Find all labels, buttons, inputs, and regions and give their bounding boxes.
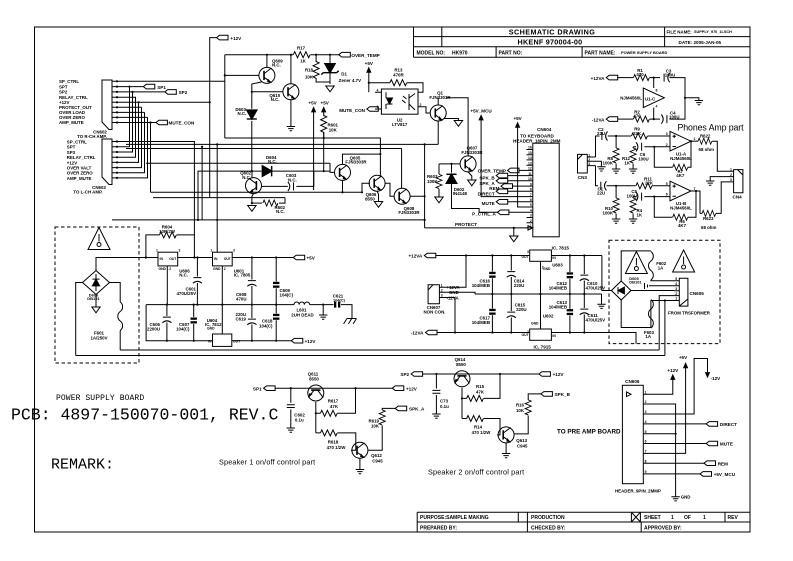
- flag REM: [501, 184, 527, 189]
- resistor R8: [613, 136, 619, 169]
- svg-text:470U: 470U: [236, 297, 247, 302]
- ground under R603: [435, 197, 443, 203]
- svg-text:3: 3: [441, 294, 443, 298]
- svg-text:POWER SUPPLY BOARD: POWER SUPPLY BOARD: [56, 394, 144, 403]
- regulator U601: [213, 252, 233, 304]
- ground R8: [612, 169, 620, 173]
- svg-text:2: 2: [666, 143, 668, 147]
- svg-text:4: 4: [656, 105, 658, 109]
- svg-text:4: 4: [377, 88, 379, 92]
- transistor Q612: [352, 442, 368, 458]
- svg-text:CN604: CN604: [537, 127, 552, 132]
- svg-text:SPK_A: SPK_A: [409, 407, 425, 412]
- svg-text:GND: GND: [531, 322, 539, 326]
- svg-text:3: 3: [675, 287, 677, 291]
- svg-text:GND: GND: [158, 267, 166, 271]
- wire R17 rail: [225, 54, 339, 56]
- svg-text:DIRECT: DIRECT: [720, 422, 737, 427]
- connector CN4: [729, 170, 743, 193]
- capacitor C814: [507, 256, 516, 295]
- svg-text:TO PRE AMP BOARD: TO PRE AMP BOARD: [557, 428, 621, 435]
- svg-text:R14: R14: [474, 425, 483, 430]
- svg-text:470 1/2W: 470 1/2W: [327, 445, 347, 450]
- CN603 net label stack: [67, 139, 96, 180]
- svg-text:+5V: +5V: [308, 100, 317, 105]
- flag +5V_MCU (CN606): [649, 472, 712, 477]
- svg-text:104(C): 104(C): [333, 297, 346, 302]
- svg-text:+12VA: +12VA: [408, 254, 423, 259]
- svg-text:1K: 1K: [624, 160, 630, 165]
- ground under D606: [92, 295, 100, 313]
- resistor R617: [320, 410, 337, 416]
- transistor Q607: [460, 156, 476, 172]
- svg-text:47K: 47K: [330, 404, 339, 409]
- svg-text:2200U: 2200U: [147, 327, 160, 332]
- +5V rail: [178, 257, 294, 259]
- svg-text:N.C.: N.C.: [272, 63, 281, 68]
- svg-text:100K: 100K: [427, 179, 438, 184]
- svg-text:100U: 100U: [665, 73, 676, 78]
- svg-text:SPT: SPT: [59, 84, 68, 89]
- transistor Q610: [283, 84, 299, 100]
- bridge D605: [611, 281, 631, 300]
- svg-text:OUT: OUT: [169, 257, 177, 261]
- svg-text:OF: OF: [684, 515, 691, 521]
- svg-text:3: 3: [179, 248, 181, 252]
- svg-text:U602: U602: [543, 314, 554, 319]
- capacitor C619: [247, 305, 256, 341]
- svg-text:MUTE_CON: MUTE_CON: [339, 108, 365, 113]
- warning triangle (left): [88, 228, 110, 250]
- bottom title block: [417, 512, 750, 532]
- connector CN605: [674, 278, 688, 306]
- GND wire (CN606): [649, 404, 676, 497]
- svg-text:TO L-CH AMP.: TO L-CH AMP.: [73, 189, 102, 194]
- svg-text:1A/250V: 1A/250V: [90, 335, 107, 340]
- resistor R603: [436, 164, 442, 197]
- flag MUTE_CON: [156, 120, 168, 125]
- svg-text:470U/25V: 470U/25V: [176, 291, 196, 296]
- ground under L601: [319, 305, 327, 320]
- CN605 wires: [631, 280, 674, 356]
- -12VA rail: [437, 333, 636, 344]
- svg-text:CN3: CN3: [578, 175, 588, 180]
- resistor R619: [368, 408, 395, 450]
- ground R4: [629, 219, 637, 223]
- svg-text:1: 1: [645, 390, 647, 394]
- svg-text:1: 1: [671, 515, 674, 521]
- svg-text:470U/25V: 470U/25V: [586, 318, 606, 323]
- svg-text:PURPOSE:SAMPLE MAKING: PURPOSE:SAMPLE MAKING: [420, 515, 489, 521]
- capacitor C618: [273, 305, 279, 341]
- ground under Q1: [454, 121, 462, 127]
- svg-text:10R/2W: 10R/2W: [159, 229, 176, 234]
- svg-text:NJM4560L: NJM4560L: [670, 206, 692, 211]
- svg-text:14: 14: [528, 156, 532, 160]
- svg-text:REM: REM: [718, 461, 728, 466]
- svg-text:10K: 10K: [371, 423, 380, 428]
- earth ground: [344, 319, 357, 324]
- flag SP2: [411, 372, 423, 377]
- inductor L601: [294, 302, 334, 305]
- svg-text:5: 5: [530, 203, 532, 207]
- svg-text:FJN3303R: FJN3303R: [345, 160, 367, 165]
- resistor R623: [691, 190, 696, 192]
- svg-text:IN4148: IN4148: [453, 191, 468, 196]
- flag MUTE: [496, 200, 526, 205]
- bridge D606: [83, 271, 110, 295]
- wire Q613 emitter: [502, 443, 510, 458]
- +12V rail: [146, 305, 291, 341]
- svg-text:+12V: +12V: [305, 339, 317, 344]
- svg-text:N.C.: N.C.: [268, 159, 277, 164]
- big bottom-left texts: [11, 123, 744, 477]
- resistor R622: [691, 138, 729, 171]
- svg-text:IC, 7815: IC, 7815: [552, 246, 570, 251]
- svg-text:3: 3: [666, 132, 668, 136]
- transistor Q609: [259, 67, 275, 83]
- svg-text:MUTE: MUTE: [720, 442, 733, 447]
- svg-text:104/MEB: 104/MEB: [472, 320, 490, 325]
- svg-text:FJN3303R: FJN3303R: [398, 210, 420, 215]
- flag +12V (sp2): [539, 372, 551, 377]
- +12VA rail: [436, 255, 602, 257]
- resistor R6 feedback: [654, 191, 696, 220]
- svg-text:2: 2: [645, 400, 647, 404]
- svg-text:100U: 100U: [627, 193, 638, 198]
- transistor Q613: [498, 427, 514, 443]
- svg-text:220U: 220U: [516, 307, 527, 312]
- svg-text:104(C): 104(C): [280, 293, 294, 298]
- op-amp U1-C: [643, 88, 664, 108]
- svg-text:104/MEB: 104/MEB: [549, 286, 567, 291]
- svg-text:1A: 1A: [658, 265, 664, 270]
- top title block: [414, 27, 751, 57]
- svg-text:Speaker 2 on/off control part: Speaker 2 on/off control part: [428, 468, 524, 477]
- transistor Q608: [394, 188, 410, 204]
- flag SPK_B: [496, 173, 526, 178]
- svg-text:R623: R623: [703, 216, 714, 221]
- wire SP1 rail: [275, 387, 392, 389]
- svg-text:12: 12: [528, 167, 532, 171]
- svg-text:IC, 7915: IC, 7915: [534, 345, 552, 350]
- svg-text:+5V: +5V: [321, 100, 330, 105]
- resistor R17: [293, 52, 310, 58]
- capacitor C621: [341, 305, 352, 319]
- svg-text:HEADER_9PIN_2MMP: HEADER_9PIN_2MMP: [615, 488, 661, 493]
- svg-text:-12V: -12V: [711, 376, 722, 381]
- svg-text:MUTE_CON: MUTE_CON: [169, 121, 195, 126]
- resistor R11: [616, 183, 670, 189]
- svg-text:U1-C: U1-C: [645, 96, 656, 101]
- warning triangle (box right 1): [625, 252, 647, 274]
- svg-text:1K: 1K: [300, 59, 306, 64]
- flag +12V (sp1): [392, 386, 404, 391]
- diode D1 zener: [329, 55, 331, 84]
- flag +12V (top): [210, 35, 228, 197]
- connector CN603: [102, 139, 117, 185]
- svg-text:R618: R618: [328, 440, 339, 445]
- capacitor C2: [596, 131, 617, 157]
- svg-text:OVER_TEMP: OVER_TEMP: [351, 53, 379, 58]
- svg-text:PROTECT: PROTECT: [455, 222, 477, 227]
- capacitor C603: [262, 132, 324, 191]
- svg-text:R617: R617: [328, 399, 339, 404]
- svg-text:13: 13: [528, 161, 532, 165]
- svg-text:22K: 22K: [645, 181, 654, 186]
- svg-text:MUTE: MUTE: [482, 201, 495, 206]
- svg-text:220U: 220U: [514, 283, 525, 288]
- svg-text:104/MEB: 104/MEB: [549, 304, 567, 309]
- svg-text:7: 7: [530, 193, 532, 197]
- optocoupler U2: [375, 89, 418, 114]
- svg-text:U603: U603: [552, 262, 563, 267]
- capacitor C815: [507, 294, 516, 333]
- svg-text:IC, 7805: IC, 7805: [234, 273, 251, 278]
- ground under Q602: [248, 206, 256, 212]
- diode D603: [251, 92, 253, 171]
- flag SP1: [143, 84, 155, 89]
- capacitor C602: [287, 388, 295, 428]
- svg-text:CN605: CN605: [690, 291, 705, 296]
- diode D602: [452, 164, 498, 212]
- svg-text:IN: IN: [552, 256, 556, 260]
- svg-text:IN: IN: [552, 334, 556, 338]
- svg-text:+5V_MCU: +5V_MCU: [470, 109, 492, 114]
- svg-text:7: 7: [645, 450, 647, 454]
- resistor R1: [618, 75, 660, 81]
- svg-text:3: 3: [530, 214, 532, 218]
- fuse F602 loop: [621, 251, 653, 281]
- svg-text:HK970: HK970: [452, 50, 468, 56]
- svg-text:8550: 8550: [309, 376, 319, 381]
- svg-text:FJN3303R: FJN3303R: [461, 150, 483, 155]
- svg-text:470: 470: [636, 72, 644, 77]
- resistor R15: [467, 395, 484, 401]
- svg-text:HKENF 970004-00: HKENF 970004-00: [518, 38, 583, 47]
- ground under protect: [510, 228, 518, 242]
- svg-text:OUT: OUT: [233, 339, 241, 343]
- transistor Q605: [335, 164, 351, 180]
- flag SPK_B (sp2): [541, 392, 553, 397]
- flag +5V: [293, 255, 305, 260]
- flag DIRECT (CN606): [649, 422, 718, 427]
- svg-text:6: 6: [666, 193, 668, 197]
- ground at GND rail end: [597, 294, 605, 308]
- svg-text:100U: 100U: [638, 156, 649, 161]
- svg-text:+12VA: +12VA: [591, 76, 606, 81]
- svg-text:N.C.: N.C.: [238, 111, 247, 116]
- svg-text:SP1: SP1: [253, 386, 262, 391]
- resistor R9: [616, 133, 670, 139]
- svg-text:6: 6: [530, 198, 532, 202]
- ground (U1-C): [685, 98, 703, 105]
- svg-text:2UH DEAD: 2UH DEAD: [291, 312, 313, 317]
- svg-text:8: 8: [656, 89, 658, 93]
- op-amp U1-A: [670, 131, 691, 151]
- capacitor C609: [273, 258, 279, 305]
- svg-text:2: 2: [169, 267, 171, 271]
- svg-text:104/MEB: 104/MEB: [472, 283, 490, 288]
- svg-text:PART NAME:: PART NAME:: [585, 50, 616, 56]
- resistor R601: [321, 116, 327, 139]
- capacitor C616: [489, 256, 495, 295]
- svg-text:+12V: +12V: [406, 386, 418, 391]
- ground under Q607: [468, 180, 476, 186]
- transistor Q614: [453, 371, 471, 387]
- flag SP1: [264, 386, 276, 391]
- wire bus CN602 to CN603: [117, 81, 225, 192]
- fuse F601: [110, 283, 123, 351]
- svg-text:16: 16: [528, 146, 532, 150]
- svg-text:+5V_MCU: +5V_MCU: [714, 472, 736, 477]
- svg-text:SP1: SP1: [157, 85, 166, 90]
- CN607 connector: [428, 285, 444, 304]
- svg-text:3: 3: [645, 410, 647, 414]
- svg-text:+12V: +12V: [667, 368, 679, 373]
- ground under D1: [326, 86, 334, 92]
- svg-text:4K7: 4K7: [676, 173, 685, 178]
- svg-text:CN606: CN606: [625, 379, 640, 384]
- svg-text:+5V: +5V: [307, 256, 316, 261]
- svg-text:P_CTRL_A: P_CTRL_A: [472, 211, 496, 216]
- svg-text:+5V: +5V: [679, 355, 688, 360]
- resistor R13: [369, 73, 423, 93]
- flag MUTE_CON (U2): [367, 107, 379, 112]
- GND rail: [146, 304, 294, 306]
- GND rail (mid): [475, 293, 602, 295]
- resistor R4: [630, 197, 636, 219]
- flag +12VA (phones): [606, 75, 618, 80]
- svg-text:8550: 8550: [456, 362, 466, 367]
- svg-text:GND: GND: [213, 267, 221, 271]
- CN602 net label stack: [59, 79, 92, 125]
- svg-text:470R: 470R: [393, 73, 404, 78]
- svg-text:3: 3: [588, 162, 590, 166]
- wire protect left bracket: [424, 144, 426, 228]
- capacitor C613: [567, 294, 573, 333]
- svg-text:OUT: OUT: [224, 257, 232, 261]
- flag P_CTRL_A: [497, 210, 526, 215]
- wire bridge to rails: [76, 258, 158, 356]
- svg-text:15: 15: [528, 151, 532, 155]
- svg-text:100U: 100U: [669, 115, 680, 120]
- svg-text:1: 1: [156, 248, 158, 252]
- AC wires to transformer connector: [76, 350, 665, 356]
- svg-text:Q614: Q614: [455, 357, 466, 362]
- svg-text:100K: 100K: [603, 210, 614, 215]
- long bus wires to the right: [112, 55, 438, 253]
- svg-text:N.C.: N.C.: [271, 97, 280, 102]
- wire PROTECT: [425, 227, 528, 229]
- capacitor C601: [193, 258, 202, 305]
- svg-text:1: 1: [703, 515, 706, 521]
- svg-text:SHEET: SHEET: [644, 515, 661, 521]
- svg-text:SP_CTRL: SP_CTRL: [59, 79, 79, 84]
- svg-text:GND: GND: [681, 495, 691, 500]
- svg-text:IN: IN: [214, 257, 218, 261]
- ground under Q606: [374, 202, 382, 208]
- svg-text:8: 8: [530, 188, 532, 192]
- capacitor C73: [432, 374, 440, 414]
- capacitor C3: [664, 73, 685, 94]
- svg-text:APPROVED BY:: APPROVED BY:: [644, 525, 682, 531]
- op-amp U1-B: [670, 181, 691, 201]
- svg-text:LTV817: LTV817: [392, 122, 408, 127]
- svg-text:CN4: CN4: [733, 194, 743, 199]
- svg-text:DB101: DB101: [629, 280, 642, 285]
- svg-text:SPK_B: SPK_B: [555, 392, 571, 397]
- svg-text:C945: C945: [517, 443, 528, 448]
- svg-text:FROM TRSFORMER: FROM TRSFORMER: [668, 311, 711, 316]
- svg-text:DIRECT: DIRECT: [478, 191, 495, 196]
- svg-text:8550: 8550: [365, 196, 375, 201]
- svg-text:10: 10: [528, 177, 532, 181]
- svg-text:PART NO:: PART NO:: [499, 50, 523, 56]
- ground R10: [612, 219, 620, 223]
- svg-text:SPT: SPT: [67, 145, 76, 150]
- svg-text:N.C.: N.C.: [288, 177, 297, 182]
- svg-text:IN: IN: [208, 339, 212, 343]
- svg-text:Zener 4.7V: Zener 4.7V: [339, 78, 361, 83]
- capacitor C608: [247, 258, 256, 305]
- svg-text:22K: 22K: [633, 131, 642, 136]
- flag OVER_TEMP (CN604): [508, 168, 527, 173]
- flag MUTE (CN606): [649, 441, 718, 446]
- svg-text:C945: C945: [372, 458, 383, 463]
- svg-text:22U: 22U: [597, 190, 605, 195]
- svg-text:+12V: +12V: [553, 372, 565, 377]
- transistor Q1: [430, 105, 446, 121]
- svg-text:CHECKED BY:: CHECKED BY:: [531, 525, 566, 531]
- CN607 wires: [444, 256, 475, 333]
- svg-text:-12VA: -12VA: [592, 117, 605, 122]
- resistor R602: [252, 198, 285, 207]
- svg-text:PCB: 4897-150070-001, REV.C: PCB: 4897-150070-001, REV.C: [11, 406, 278, 425]
- svg-text:+12V: +12V: [230, 36, 242, 41]
- resistor R12: [630, 147, 636, 169]
- svg-text:GND: GND: [543, 267, 551, 271]
- svg-text:6: 6: [645, 440, 647, 444]
- regulator U606: [158, 252, 178, 304]
- svg-text:104(C): 104(C): [259, 323, 273, 328]
- svg-text:+5V: +5V: [513, 116, 522, 121]
- svg-text:4: 4: [645, 420, 647, 424]
- svg-text:SP2: SP2: [400, 372, 409, 377]
- svg-text:N.C.: N.C.: [242, 175, 251, 180]
- capacitor C617: [489, 294, 495, 333]
- wire SP2 rail: [423, 373, 539, 375]
- svg-text:FILE NAME:: FILE NAME:: [667, 29, 693, 34]
- svg-text:2: 2: [530, 219, 532, 223]
- svg-text:IN: IN: [160, 257, 164, 261]
- svg-text:10K: 10K: [305, 75, 314, 80]
- flag DIRECT: [496, 189, 526, 194]
- svg-text:Q613: Q613: [516, 438, 527, 443]
- diode D604: [198, 163, 330, 220]
- wire Q614 collector chain: [462, 374, 500, 419]
- svg-text:1: 1: [730, 167, 732, 171]
- svg-text:SP2: SP2: [59, 90, 68, 95]
- wire Q609 collector: [225, 55, 267, 92]
- svg-text:GND: GND: [207, 326, 215, 330]
- svg-text:2: 2: [675, 292, 677, 296]
- svg-text:Speaker 1 on/off control part: Speaker 1 on/off control part: [219, 458, 315, 467]
- fuse F603 loop: [621, 300, 639, 328]
- svg-text:R15: R15: [476, 384, 485, 389]
- svg-text:DB101: DB101: [87, 296, 100, 301]
- svg-text:D1: D1: [341, 72, 347, 77]
